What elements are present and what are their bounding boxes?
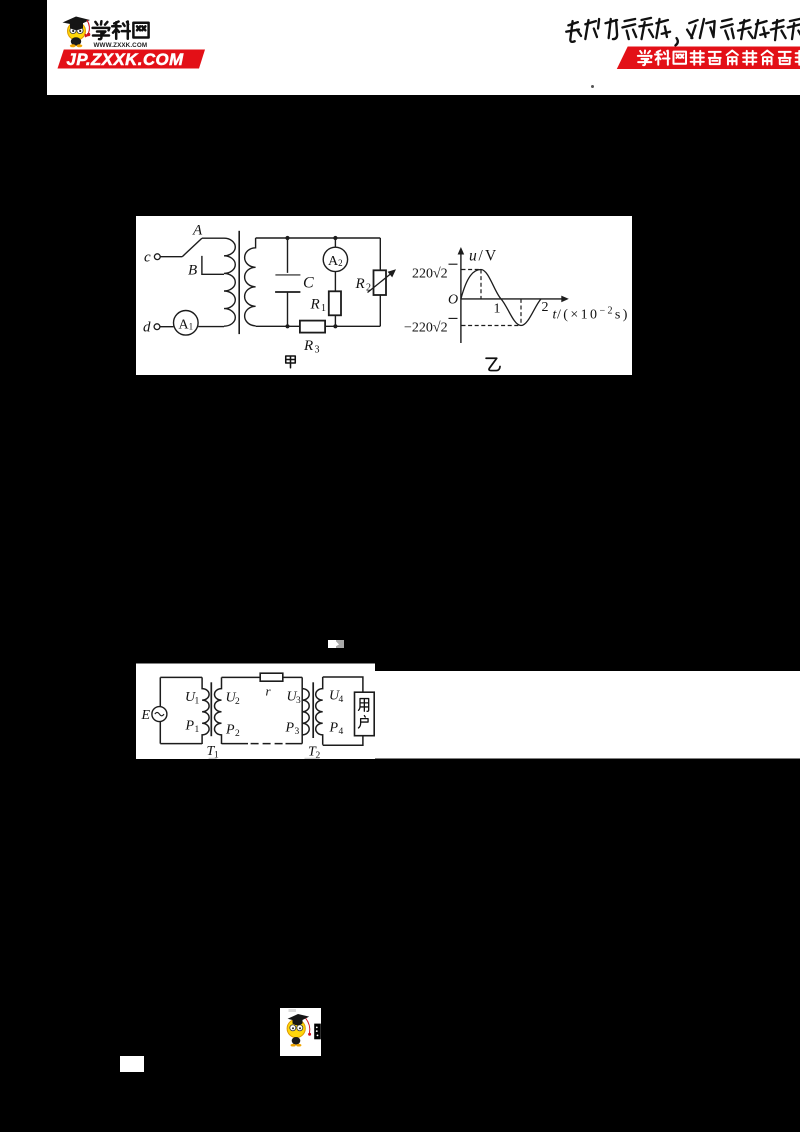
svg-text:B: B <box>188 263 197 279</box>
bottom small white box <box>120 1056 144 1072</box>
label U2 <box>226 691 241 708</box>
wire transmission line bottom (dashed break) <box>251 743 285 745</box>
label U4 <box>329 689 344 706</box>
capacitor branch <box>287 238 289 326</box>
junction bottom-right at R1 branch <box>333 324 337 328</box>
mascot head <box>68 22 86 40</box>
svg-text:4: 4 <box>339 727 344 737</box>
hidden glyph definitions <box>0 0 1 1</box>
svg-text:3: 3 <box>315 345 320 356</box>
primary coil (5 bumps) <box>224 238 235 326</box>
capacitor plates <box>275 274 300 276</box>
wire transmission line bottom (solid part right) <box>286 743 303 745</box>
svg-text:2: 2 <box>235 729 240 739</box>
svg-text:c: c <box>144 250 151 266</box>
caption 乙 <box>486 358 500 370</box>
svg-text:2: 2 <box>542 300 549 315</box>
svg-text:2: 2 <box>366 283 371 294</box>
svg-text:R: R <box>310 297 320 313</box>
学科网 logo text <box>93 21 110 39</box>
black strip with dots <box>314 1023 321 1039</box>
tiny dot below header <box>591 85 594 88</box>
svg-text:/V: /V <box>479 248 499 265</box>
head <box>287 1019 305 1037</box>
label P2 <box>225 723 240 740</box>
sine wave <box>461 270 541 326</box>
logo mascot <box>47 0 227 95</box>
svg-text:4: 4 <box>339 695 344 705</box>
svg-text:u: u <box>469 248 477 265</box>
secondary top wire <box>256 237 381 239</box>
body <box>71 37 81 45</box>
svg-text:P: P <box>285 721 295 736</box>
transformer core <box>238 231 240 334</box>
junction top-left at capacitor branch <box>285 236 289 240</box>
label P1 <box>185 719 200 736</box>
label T1 <box>207 744 220 761</box>
resistor R1 <box>329 291 341 315</box>
cap <box>292 1019 302 1025</box>
svg-text:−220√2: −220√2 <box>404 321 448 336</box>
tassel <box>87 20 89 33</box>
svg-text:1: 1 <box>195 725 200 735</box>
label P4 <box>329 721 344 738</box>
value label 220√2 <box>412 264 458 281</box>
faint underlines below T1 T2 <box>209 757 320 759</box>
cap tassel <box>305 1018 309 1033</box>
label R1 <box>310 297 327 315</box>
svg-text:O: O <box>448 293 458 308</box>
svg-text:220√2: 220√2 <box>412 267 448 282</box>
svg-text:1: 1 <box>321 303 326 314</box>
label R3 <box>303 338 320 356</box>
svg-text:2: 2 <box>235 697 240 707</box>
svg-text:JP.ZXXK.COM: JP.ZXXK.COM <box>67 50 185 69</box>
wire transmission line bottom (solid part) <box>222 743 249 745</box>
header white band <box>47 0 800 95</box>
wire left loop (source to T1 primary) <box>160 677 202 743</box>
label t/(x10^-2 s) <box>553 306 630 323</box>
graduation cap <box>70 23 83 30</box>
wire switch top to coil <box>202 237 224 239</box>
tap B wire <box>202 256 224 274</box>
wire coil bottom to A1 <box>198 326 224 328</box>
resistor r <box>260 673 283 681</box>
label P3 <box>285 721 300 738</box>
svg-text:3: 3 <box>295 727 300 737</box>
svg-text:1: 1 <box>195 697 200 707</box>
svg-text:A: A <box>192 223 203 239</box>
wire right loop (T2 secondary to user) <box>323 677 363 745</box>
resistor R3 <box>300 321 325 333</box>
svg-text:1: 1 <box>494 302 501 317</box>
svg-text:C: C <box>303 275 314 292</box>
caption 甲 <box>286 356 296 368</box>
user load box 用户 <box>355 692 375 736</box>
T2 primary coil <box>302 689 309 735</box>
ammeter A2 <box>323 247 347 271</box>
y axis <box>460 252 462 343</box>
terminal d <box>154 324 160 330</box>
T2 core <box>312 682 314 738</box>
ammeter A1 <box>174 311 199 336</box>
wire d to A1 <box>160 326 173 328</box>
wire transmission line top <box>222 677 303 743</box>
svg-text:3: 3 <box>296 696 301 706</box>
label R2 <box>355 276 372 294</box>
T2 secondary coil <box>316 677 323 745</box>
terminal c <box>154 254 160 260</box>
dashed guides <box>462 270 522 326</box>
glasses <box>70 27 76 33</box>
svg-text:R: R <box>355 276 365 292</box>
label T2 <box>308 745 321 762</box>
secondary coil (stub + 4 bumps) <box>245 238 256 326</box>
A2 branch wires <box>334 238 336 326</box>
T1 secondary coil <box>215 677 222 744</box>
right calligraphy slogan <box>560 8 800 50</box>
junction top-right at A2 branch <box>333 236 337 240</box>
label U1 <box>185 690 200 707</box>
x axis arrowhead <box>561 296 569 303</box>
cursor icon between panels <box>328 640 336 648</box>
svg-text:P: P <box>329 721 339 736</box>
svg-text:d: d <box>143 320 151 336</box>
value label −220√2 <box>404 318 458 335</box>
svg-text:P: P <box>225 723 235 738</box>
rheostat R2 <box>368 269 397 295</box>
right wire with R2 <box>379 238 381 326</box>
T1 core <box>210 682 212 736</box>
svg-text:R: R <box>303 338 313 354</box>
label u/V <box>469 248 498 265</box>
wire c to switch <box>160 256 182 258</box>
label U3 <box>287 690 302 707</box>
switch blade A <box>182 238 202 257</box>
right red banner <box>610 45 800 71</box>
JP.ZXXK.COM red banner <box>47 45 227 75</box>
junction bottom-left at capacitor branch <box>285 324 289 328</box>
feet <box>70 44 76 47</box>
secondary bottom wire <box>256 325 381 327</box>
y axis arrowhead <box>458 247 465 255</box>
svg-text:E: E <box>141 708 151 723</box>
body <box>291 1037 300 1045</box>
svg-text:P: P <box>185 719 195 734</box>
x axis <box>461 298 563 300</box>
svg-text:/(×10−2s): /(×10−2s) <box>557 306 630 323</box>
AC source E <box>152 707 167 722</box>
T1 primary coil <box>202 677 209 744</box>
